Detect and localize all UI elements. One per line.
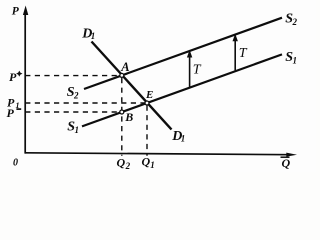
svg-text:1: 1 — [181, 134, 186, 144]
svg-text:B: B — [124, 110, 133, 124]
svg-text:Q: Q — [117, 156, 126, 170]
svg-text:1: 1 — [150, 160, 155, 170]
dashed quantity line Q2 from A — [121, 78, 123, 156]
x-axis arrowhead — [286, 153, 297, 157]
dashed price line P1 to E — [25, 102, 145, 104]
svg-text:1: 1 — [75, 125, 80, 135]
svg-text:0: 0 — [13, 157, 18, 168]
y-axis arrowhead — [23, 6, 28, 16]
svg-text:1: 1 — [293, 56, 298, 66]
demand curve D1 — [92, 42, 172, 130]
svg-text:2: 2 — [125, 161, 131, 171]
dashed price line P- to B — [25, 111, 119, 113]
y-axis (P axis) — [24, 12, 26, 154]
dashed quantity line Q1 from E — [146, 106, 148, 156]
svg-text:P: P — [7, 106, 15, 120]
svg-text:T: T — [193, 62, 202, 77]
dashed price line P* to A — [25, 75, 120, 77]
svg-text:A: A — [120, 60, 129, 74]
svg-text:E: E — [145, 89, 153, 101]
svg-text:1: 1 — [91, 31, 96, 41]
svg-text:Q: Q — [142, 155, 151, 169]
supply curve S1 — [82, 54, 282, 126]
x-axis (Q axis) — [25, 153, 290, 155]
svg-text:P: P — [9, 70, 17, 84]
point A (D1 x S2) — [120, 73, 124, 77]
tax shift arrow T (left) — [189, 55, 191, 87]
point E (D1 x S1) — [145, 101, 149, 105]
tax shift arrow T (right) — [234, 39, 236, 71]
supply curve S2 — [84, 18, 282, 89]
svg-text:P: P — [12, 6, 20, 18]
point B (S1 at Q2) — [120, 110, 124, 114]
svg-text:2: 2 — [292, 17, 298, 27]
svg-text:2: 2 — [73, 91, 79, 101]
svg-text:T: T — [239, 46, 248, 61]
